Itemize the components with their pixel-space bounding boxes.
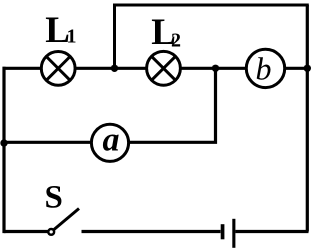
lamp L1 (41, 52, 75, 86)
wire: switch to battery (82, 230, 221, 233)
wire: lamp L2 to meter b (180, 67, 247, 70)
wire: junction up to top rail (113, 5, 116, 68)
wire: left wall (2, 67, 5, 233)
label L1 (45, 10, 76, 51)
wire: left wall to meter a (4, 141, 91, 144)
svg-text:b: b (256, 51, 272, 87)
junction: meter b branch to right wall (304, 65, 311, 72)
svg-text:2: 2 (171, 29, 181, 51)
wire: meter b to right wall (285, 67, 307, 70)
junction: node between L2 and meter b (212, 65, 219, 72)
wire: bottom rail, left wall to switch (4, 230, 48, 233)
svg-text:S: S (45, 179, 63, 215)
switch S (48, 209, 79, 235)
svg-text:a: a (103, 122, 120, 159)
junction: left wall to meter a branch (0, 139, 7, 146)
label S (45, 179, 63, 215)
wire: lamp L1 to lamp L2 (75, 67, 147, 70)
wire: right wall (306, 5, 309, 232)
wire: top rail (115, 4, 308, 7)
meter b (246, 49, 284, 87)
junction: node between L1 and L2 (111, 65, 118, 72)
wire: battery to right wall (235, 230, 308, 233)
label L2 (151, 12, 181, 53)
wire: middle rail, left wall to lamp L1 (3, 67, 43, 70)
wire: junction down and left to meter a (129, 68, 216, 142)
battery (221, 219, 236, 248)
svg-text:1: 1 (67, 26, 77, 48)
meter a (91, 122, 128, 162)
lamp L2 (147, 51, 181, 85)
